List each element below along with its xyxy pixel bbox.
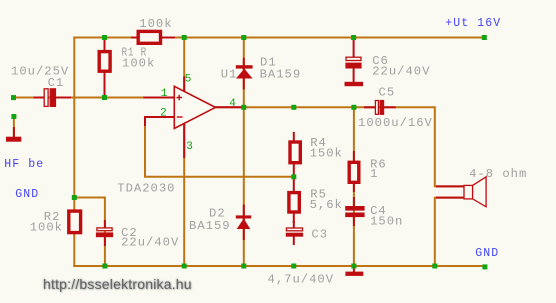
C4 leads <box>353 198 355 207</box>
R4 leads <box>293 133 295 141</box>
wire output net <box>216 107 465 186</box>
svg-text:100k: 100k <box>122 56 155 70</box>
junction feedback R4 R5 <box>291 174 296 179</box>
wire R6 C4 branch <box>353 107 355 266</box>
diode D1 lead <box>243 59 245 89</box>
endpoint bottom right <box>482 264 487 269</box>
junction output R4 <box>291 105 296 110</box>
svg-text:C3: C3 <box>311 227 328 241</box>
svg-text:100k: 100k <box>30 220 63 234</box>
bottom gnd symbol lead <box>353 266 355 272</box>
junction D2 bottom <box>241 264 246 269</box>
wire speaker return <box>435 198 464 266</box>
endpoint input gnd <box>11 114 16 119</box>
junction pin5 tap <box>182 35 187 40</box>
junction D1 top <box>241 35 246 40</box>
C6 leads <box>353 38 355 58</box>
junction R1 top <box>102 35 107 40</box>
svg-text:TDA2030: TDA2030 <box>117 182 175 196</box>
op-amp pin 1 stub <box>144 97 174 99</box>
wire C2 branch <box>74 198 105 267</box>
junction squares <box>11 35 487 269</box>
junction speaker return <box>432 264 437 269</box>
capacitor C6 <box>345 57 361 68</box>
svg-text:GND: GND <box>475 247 499 260</box>
svg-text:5,6k: 5,6k <box>310 198 343 212</box>
junction C3 bottom <box>291 264 296 269</box>
svg-text:U1: U1 <box>221 68 238 82</box>
svg-text:150k: 150k <box>310 147 343 161</box>
wire left vertical (top rail to R2 branch) <box>73 38 75 267</box>
svg-text:1: 1 <box>161 88 168 100</box>
R5 leads <box>293 180 295 192</box>
capacitor C5 <box>375 100 384 115</box>
svg-text:22u/40V: 22u/40V <box>372 65 430 79</box>
svg-text:BA159: BA159 <box>189 219 231 233</box>
wire pin2 feedback loop <box>145 117 294 177</box>
ground symbol at input <box>6 137 21 142</box>
capacitor C4 (non polarized) <box>345 206 364 217</box>
resistor R1 <box>99 52 110 72</box>
junction output R6 <box>351 105 356 110</box>
resistor R5 <box>289 193 299 212</box>
capacitor C3 <box>286 228 303 237</box>
junction C2 bottom <box>102 264 107 269</box>
resistor R2 <box>69 211 81 233</box>
svg-text:5: 5 <box>185 73 192 85</box>
input gnd lead <box>13 128 15 137</box>
resistor R3 100k horizontal <box>138 31 160 43</box>
svg-text:4,7u/40V: 4,7u/40V <box>268 272 335 286</box>
capacitor C2 <box>96 228 113 237</box>
pin stubs red: R1 <box>104 40 106 52</box>
wire R1 branch <box>104 38 106 98</box>
junction C4 bottom <box>351 264 356 269</box>
R6 leads <box>353 152 355 161</box>
wire bottom ground rail <box>74 265 485 267</box>
wire pin3 branch down to ground <box>183 123 185 266</box>
resistor R4 <box>290 142 300 163</box>
wire top +V rail <box>74 37 484 39</box>
speaker 4-8 ohm <box>464 177 486 207</box>
wire input ground stub <box>13 117 15 138</box>
svg-text:2: 2 <box>160 107 167 119</box>
ground symbol under C6 <box>345 82 364 86</box>
pin stubs red: R3 <box>132 37 137 39</box>
junction pin3 bottom <box>182 264 187 269</box>
C2 leads <box>104 221 106 228</box>
wire input to pin 1 <box>14 97 175 99</box>
ground symbol under bottom rail <box>345 272 363 276</box>
wire pin5 branch <box>183 38 185 92</box>
svg-text:3: 3 <box>186 141 193 153</box>
svg-text:4-8 ohm: 4-8 ohm <box>469 167 527 181</box>
C5 leads <box>365 106 375 108</box>
op-amp pin 3 stub <box>183 123 185 157</box>
svg-text:1000u/16V: 1000u/16V <box>358 116 433 130</box>
resistor R6 <box>349 162 359 182</box>
op-amp pin 4 output stub <box>216 106 244 108</box>
junction C6 tap <box>351 35 356 40</box>
pin stubs red: C1 <box>35 97 44 99</box>
speaker pin leads <box>437 185 464 187</box>
watermark http://bsselektronika.hu <box>43 276 192 292</box>
endpoint top right <box>482 35 487 40</box>
svg-text:BA159: BA159 <box>260 68 302 82</box>
svg-text:1: 1 <box>370 167 378 181</box>
junction R2 top <box>72 195 77 200</box>
C3 leads <box>293 222 295 228</box>
diode D2 BA159 <box>236 215 251 229</box>
svg-text:4: 4 <box>229 98 236 110</box>
endpoint input <box>11 95 16 100</box>
op-amp pin 5 stub <box>183 77 185 91</box>
svg-text:C1: C1 <box>48 76 65 90</box>
svg-text:100k: 100k <box>139 17 172 31</box>
svg-text:+Ut 16V: +Ut 16V <box>445 17 501 30</box>
svg-text:150n: 150n <box>370 215 403 229</box>
junction output D <box>241 105 246 110</box>
capacitor C1 (plus plate hollow, minus solid) <box>44 88 56 107</box>
junction R1 bottom <box>102 95 107 100</box>
svg-text:GND: GND <box>15 188 39 201</box>
svg-text:C5: C5 <box>379 85 396 99</box>
op-amp U1 TDA2030 <box>174 86 215 128</box>
diode D2 lead <box>243 206 245 239</box>
wire D1 D2 vertical <box>243 38 245 267</box>
diode D1 BA159 <box>236 65 253 78</box>
svg-text:HF be: HF be <box>4 158 44 171</box>
svg-text:22u/40V: 22u/40V <box>121 236 179 250</box>
op-amp pin 2 stub <box>145 117 174 125</box>
